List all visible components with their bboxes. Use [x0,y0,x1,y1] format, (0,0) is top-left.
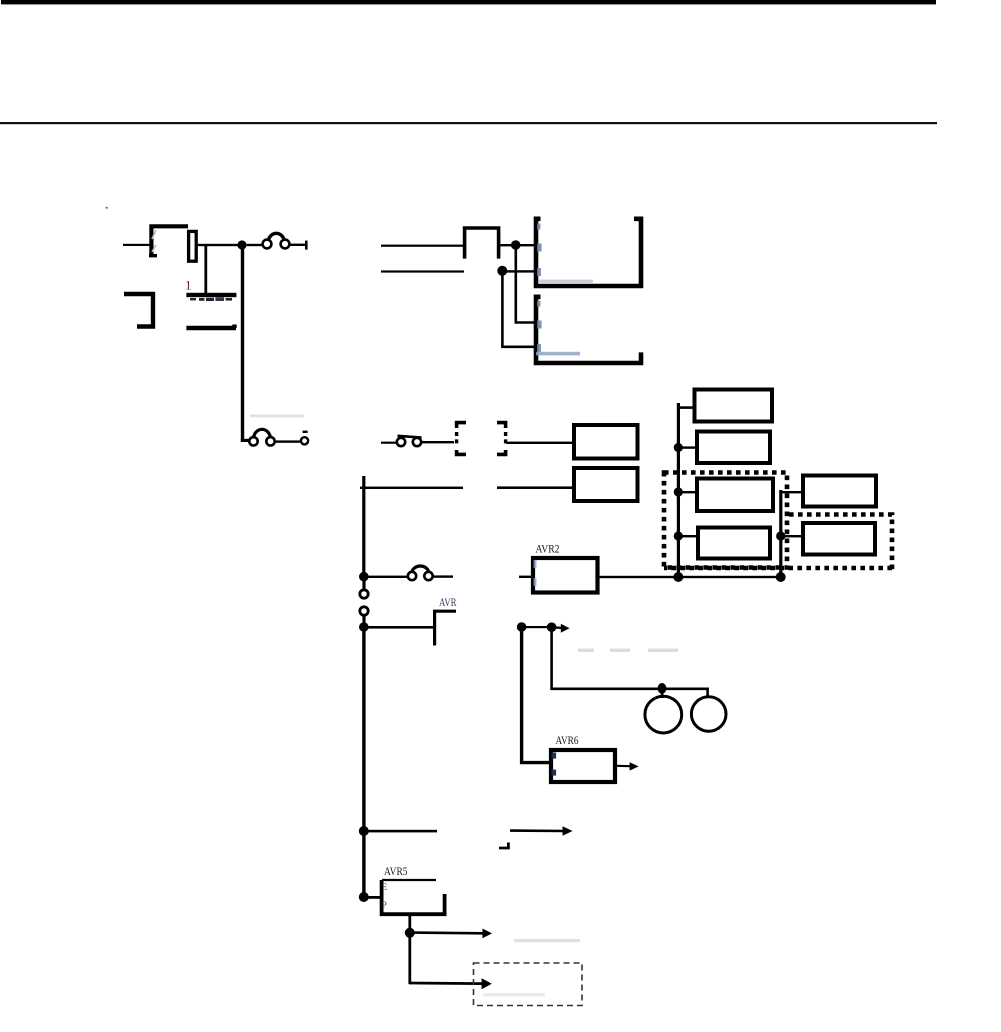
svg-text:AVR5: AVR5 [384,864,408,878]
header rule [0,122,937,124]
connector stub circle [301,431,308,445]
node N junction on motor wire [658,683,667,694]
wire to load box4 [680,535,697,537]
arrow Q right [411,929,492,939]
svg-text:AVR2: AVR2 [536,542,560,556]
node E junction [359,622,369,632]
AVR2 wire out to right buses [599,576,781,578]
wire O right [365,830,437,833]
wire E to AVR1 [365,626,435,629]
AVR2 faint pin marks [534,560,537,586]
AVR1 partial box [435,611,456,645]
AVR5 box [382,880,445,914]
faded print under bar [190,297,232,301]
relay box K1 [574,425,638,459]
wire D to F3 [365,576,407,578]
bus segment below plug [362,615,365,627]
right bus 2 [779,490,782,577]
connector P1 top bracket [151,226,188,257]
wire bracket to K1 [506,442,572,444]
dotted group rect 1 [664,473,787,568]
arrow stub at M [552,624,570,633]
U1 faded pin marks [537,224,542,277]
AVR5 stub down [408,916,411,984]
AVR2 box [533,558,598,593]
connector gap bracket left [457,423,466,455]
connector housing U1 [536,219,641,286]
arrow mid (detached) [510,826,573,836]
wire node B down to U2 pin [516,245,534,323]
motor M1 stub [661,691,664,698]
dashed option box [474,963,583,1006]
wire row3 left [360,487,463,489]
main bus lower [362,627,365,897]
dotted group rect 2 [664,515,892,573]
node H junction [674,531,683,540]
load box 6 [803,523,875,555]
wire P to AVR5 [365,896,381,899]
switch S2 [381,436,454,446]
bus plug circle 1 [360,590,368,598]
U2 faded label [536,352,580,356]
wire M down to motors [552,627,708,697]
faded print row 3 [483,993,545,996]
wire node C to U1 [505,270,534,272]
bus plug circle 2 [360,607,368,615]
faded print above F2 [250,414,304,417]
bus segment above plug [362,579,365,590]
U2 faded pin marks [537,301,542,353]
node L junction [517,622,527,632]
connector P1 faint marks [152,230,156,252]
AVR5 pin labels [382,882,388,910]
wire branch down [204,244,207,293]
node Q junction [405,928,415,938]
arrow bottom right [409,978,492,989]
corner mark [499,843,508,849]
load box 5 [803,476,876,507]
stray ink dot [106,207,108,209]
right bus 1 [677,403,680,577]
svg-text:P: P [382,900,387,910]
AVR6 pin marks [552,753,557,776]
node B junction [511,240,521,250]
faded print row 2 [514,939,580,942]
node K junction (bus2 bottom) [776,572,786,582]
load box 1 [695,390,773,422]
wire to load box1 [678,406,693,409]
node I junction (bus1 bottom) [673,572,683,582]
header black bar [1,0,936,4]
svg-text:AVR: AVR [439,597,457,609]
load box 3 [697,479,773,512]
wire to load box2 [680,446,696,448]
node A junction [237,240,246,249]
link bump [465,228,499,259]
svg-text:AVR6: AVR6 [556,733,579,747]
connector gap bracket right [497,423,506,455]
node F junction [674,443,683,452]
node J junction [776,531,785,540]
switch contact bar upper [186,293,236,297]
wire row3 right [497,486,573,489]
fuse F3 [408,566,453,580]
relay box K2 [574,468,638,501]
switch contact bar lower [186,325,236,329]
U1 faded label [539,280,593,283]
motor M2 [691,697,726,732]
connector P1 foot [149,254,157,257]
wire L down to AVR6 [522,627,549,763]
node M junction [547,622,557,632]
wire mid row2 [381,270,464,272]
connector housing U2 [536,297,641,363]
wire node C down to U2 pin [502,271,534,347]
wire to load box5 [782,491,801,493]
wire to node A [197,244,242,246]
wire to load box3 [680,491,696,493]
main bus down left [241,244,244,441]
left bus 2 [362,476,365,577]
motor M1 [645,696,682,733]
AVR2 wire in [519,576,533,578]
bus foot [241,439,249,442]
node P junction (bus bottom) [359,892,369,902]
fuse F1 [247,233,308,249]
wire mid row1 [381,245,463,247]
wire L to M [521,626,552,628]
node G junction [674,487,683,496]
faded print row [578,649,678,652]
connector P2 bracket [124,294,153,327]
load box 4 [698,528,770,559]
svg-text:1: 1 [185,278,192,293]
node O junction [359,826,369,836]
node D junction [359,572,369,582]
wire to load box6 [783,535,801,537]
node C junction [497,266,507,276]
svg-text:E: E [382,882,388,892]
load box 2 [697,432,770,464]
wire bump to node B [500,244,534,246]
AVR6 arrow out [617,762,639,770]
fuse F2 [249,429,300,445]
connector P1 blade [189,231,197,261]
AVR6 box [551,750,615,782]
wire mains L in [123,244,150,246]
